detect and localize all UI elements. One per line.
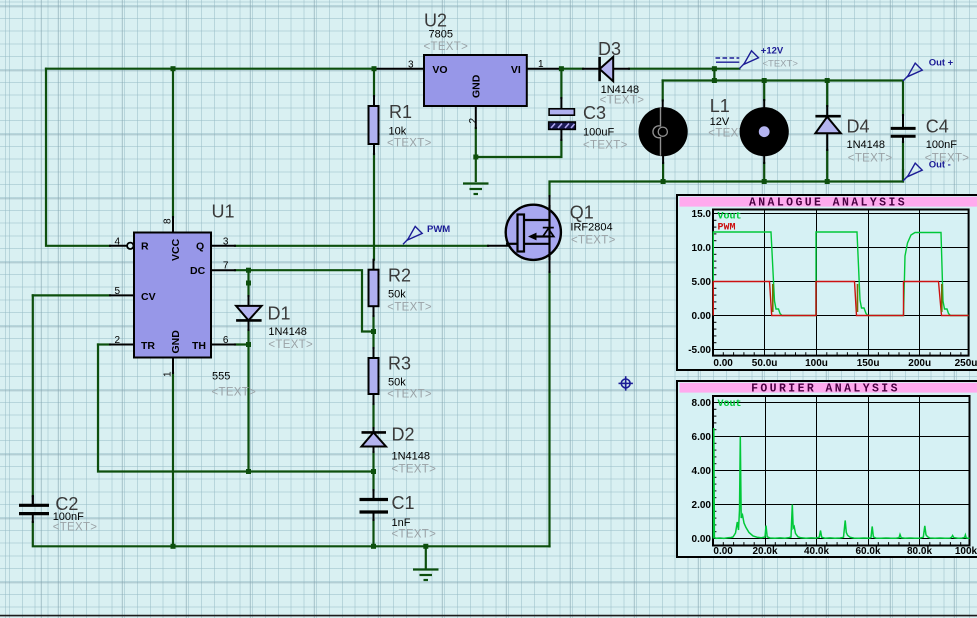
svg-text:12V: 12V bbox=[710, 116, 730, 128]
svg-text:ANALOGUE ANALYSIS: ANALOGUE ANALYSIS bbox=[749, 196, 907, 209]
svg-text:1N4148: 1N4148 bbox=[392, 451, 431, 463]
svg-text:250u: 250u bbox=[955, 358, 977, 369]
svg-text:C4: C4 bbox=[926, 117, 949, 137]
svg-text:0.00: 0.00 bbox=[713, 358, 733, 369]
svg-text:<TEXT>: <TEXT> bbox=[53, 522, 98, 534]
svg-text:1N4148: 1N4148 bbox=[847, 139, 886, 151]
svg-text:100uF: 100uF bbox=[583, 126, 614, 138]
svg-text:FOURIER ANALYSIS: FOURIER ANALYSIS bbox=[751, 382, 900, 395]
svg-text:50.0u: 50.0u bbox=[752, 358, 778, 369]
svg-text:6.00: 6.00 bbox=[692, 432, 712, 443]
svg-text:3: 3 bbox=[408, 60, 414, 71]
svg-text:1: 1 bbox=[538, 59, 544, 70]
svg-text:C1: C1 bbox=[392, 493, 415, 513]
svg-text:3: 3 bbox=[223, 236, 229, 247]
svg-text:DC: DC bbox=[190, 265, 206, 277]
svg-text:Vout: Vout bbox=[718, 399, 742, 410]
svg-text:VI: VI bbox=[511, 64, 521, 76]
svg-text:+12V: +12V bbox=[761, 46, 784, 57]
svg-text:200u: 200u bbox=[908, 358, 931, 369]
svg-text:2: 2 bbox=[468, 118, 479, 124]
svg-text:VCC: VCC bbox=[170, 238, 182, 261]
svg-text:<TEXT>: <TEXT> bbox=[212, 386, 257, 398]
svg-text:10.0: 10.0 bbox=[692, 243, 712, 254]
svg-text:Q: Q bbox=[196, 240, 204, 252]
svg-text:<TEXT>: <TEXT> bbox=[763, 59, 799, 70]
svg-text:5: 5 bbox=[115, 286, 121, 297]
svg-text:<TEXT>: <TEXT> bbox=[600, 94, 645, 106]
svg-text:4: 4 bbox=[115, 236, 121, 247]
svg-text:2: 2 bbox=[115, 335, 121, 346]
svg-text:8.00: 8.00 bbox=[692, 398, 712, 409]
svg-text:D1: D1 bbox=[268, 304, 291, 324]
svg-text:100nF: 100nF bbox=[926, 139, 957, 151]
svg-text:Vout: Vout bbox=[718, 212, 742, 223]
svg-text:<TEXT>: <TEXT> bbox=[571, 235, 616, 247]
svg-text:<TEXT>: <TEXT> bbox=[387, 389, 432, 401]
svg-text:0.00: 0.00 bbox=[692, 311, 712, 322]
svg-text:150u: 150u bbox=[857, 358, 880, 369]
svg-text:5.00: 5.00 bbox=[692, 277, 712, 288]
svg-text:0.00: 0.00 bbox=[692, 534, 712, 545]
svg-text:80.0k: 80.0k bbox=[907, 546, 932, 557]
svg-text:<TEXT>: <TEXT> bbox=[392, 463, 437, 475]
svg-text:<TEXT>: <TEXT> bbox=[387, 137, 432, 149]
svg-text:-5.00: -5.00 bbox=[688, 345, 711, 356]
svg-text:2.00: 2.00 bbox=[692, 500, 712, 511]
svg-text:1nF: 1nF bbox=[392, 517, 411, 529]
svg-text:50k: 50k bbox=[388, 289, 406, 301]
svg-text:50k: 50k bbox=[388, 377, 406, 389]
svg-text:8: 8 bbox=[163, 218, 174, 224]
svg-text:4.00: 4.00 bbox=[692, 466, 712, 477]
svg-text:D4: D4 bbox=[847, 117, 870, 137]
svg-text:CV: CV bbox=[141, 291, 156, 303]
svg-text:L1: L1 bbox=[710, 96, 730, 116]
svg-text:GND: GND bbox=[170, 330, 182, 354]
svg-text:R2: R2 bbox=[388, 266, 411, 286]
svg-text:R1: R1 bbox=[389, 102, 412, 122]
svg-text:<TEXT>: <TEXT> bbox=[268, 339, 313, 351]
svg-text:40.0k: 40.0k bbox=[804, 546, 829, 557]
svg-text:D3: D3 bbox=[598, 39, 621, 59]
svg-text:Out +: Out + bbox=[929, 58, 954, 69]
svg-text:R: R bbox=[141, 240, 149, 252]
svg-text:<TEXT>: <TEXT> bbox=[848, 153, 893, 165]
svg-text:7805: 7805 bbox=[429, 29, 453, 41]
svg-text:60.0k: 60.0k bbox=[855, 546, 880, 557]
svg-text:7: 7 bbox=[223, 261, 229, 272]
svg-text:U1: U1 bbox=[212, 201, 235, 221]
svg-text:10k: 10k bbox=[389, 126, 407, 138]
svg-text:U2: U2 bbox=[424, 10, 447, 30]
svg-text:<TEXT>: <TEXT> bbox=[387, 302, 432, 314]
svg-text:0.00: 0.00 bbox=[713, 546, 733, 557]
svg-text:15.0: 15.0 bbox=[692, 209, 712, 220]
svg-text:555: 555 bbox=[212, 371, 230, 383]
svg-text:100k: 100k bbox=[955, 546, 977, 557]
svg-text:PWM: PWM bbox=[427, 224, 450, 235]
svg-text:1: 1 bbox=[163, 371, 174, 377]
svg-text:100u: 100u bbox=[805, 358, 828, 369]
svg-text:IRF2804: IRF2804 bbox=[570, 222, 612, 234]
svg-text:Out -: Out - bbox=[929, 160, 951, 171]
svg-text:TR: TR bbox=[141, 340, 155, 352]
svg-text:TH: TH bbox=[192, 340, 206, 352]
svg-text:<TEXT>: <TEXT> bbox=[583, 139, 628, 151]
svg-text:R3: R3 bbox=[388, 354, 411, 374]
svg-text:<TEXT>: <TEXT> bbox=[392, 528, 437, 540]
svg-text:1N4148: 1N4148 bbox=[268, 326, 307, 338]
svg-text:D2: D2 bbox=[392, 425, 415, 445]
svg-text:GND: GND bbox=[471, 74, 483, 98]
svg-text:<TEXT>: <TEXT> bbox=[424, 41, 469, 53]
svg-text:Q1: Q1 bbox=[570, 203, 594, 223]
svg-text:6: 6 bbox=[223, 335, 229, 346]
svg-text:VO: VO bbox=[432, 64, 447, 76]
svg-text:20.0k: 20.0k bbox=[752, 546, 777, 557]
